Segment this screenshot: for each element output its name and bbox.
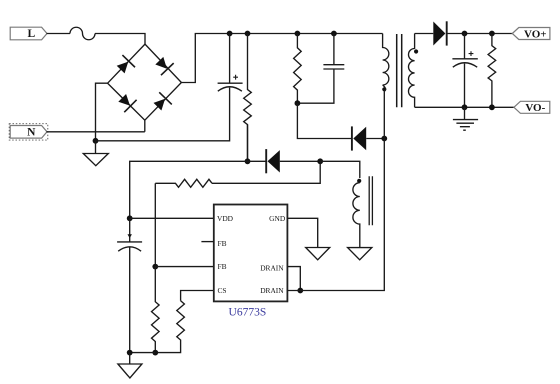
resistor R6 current sense bbox=[155, 301, 184, 353]
wire bridge right corner to HV rail bbox=[181, 34, 382, 83]
wire DRAIN2 pin to drain line bbox=[287, 139, 384, 291]
node VDD bbox=[127, 215, 133, 221]
bridge diode D2 top-right bbox=[153, 55, 174, 75]
wire GND pin to ground bbox=[287, 218, 317, 247]
wire negative return to bulk cap bbox=[96, 92, 230, 141]
node snubber junction bbox=[295, 100, 301, 106]
wire startup node to VDD diode bbox=[247, 125, 249, 162]
wire FB node to IC bbox=[155, 266, 214, 268]
capacitor C2 snubber bbox=[297, 34, 344, 104]
earth ground G5 bbox=[453, 107, 478, 130]
pin FB stub bbox=[201, 241, 213, 243]
wire secondary top to output diode bbox=[415, 33, 434, 35]
svg-text:DRAIN: DRAIN bbox=[260, 263, 284, 272]
resistor R2 snubber bbox=[294, 34, 302, 104]
node ground rail at C4 bbox=[127, 350, 133, 356]
fuse F1 bbox=[70, 27, 95, 39]
transformer T1 aux winding bbox=[353, 179, 361, 248]
svg-text:U6773S: U6773S bbox=[229, 307, 267, 319]
terminal VO+ bbox=[512, 28, 550, 41]
node DRAIN junction bbox=[297, 288, 303, 294]
svg-text:VO-: VO- bbox=[525, 102, 545, 114]
terminal N bbox=[9, 124, 48, 140]
resistor R4 feedback upper bbox=[155, 179, 212, 187]
svg-text:FB: FB bbox=[218, 239, 227, 248]
ground G4 bbox=[118, 353, 142, 378]
output bottom rail wire bbox=[415, 106, 514, 108]
resistor R5 feedback lower bbox=[152, 267, 160, 353]
bridge diamond wiring bbox=[108, 44, 182, 120]
wire VDD node to left rail bbox=[130, 161, 248, 218]
node output at R3 bbox=[489, 31, 495, 37]
wire L to fuse bbox=[47, 33, 71, 35]
ground G1 bbox=[83, 141, 108, 166]
transformer aux core bbox=[369, 176, 372, 225]
terminal VO- bbox=[514, 101, 550, 114]
node FB bbox=[152, 264, 158, 270]
svg-text:GND: GND bbox=[269, 214, 286, 223]
transformer T1 core bbox=[397, 34, 402, 107]
svg-text:N: N bbox=[27, 127, 36, 139]
svg-text:CS: CS bbox=[218, 286, 227, 295]
svg-text:VO+: VO+ bbox=[524, 28, 547, 40]
svg-text:FB: FB bbox=[218, 262, 227, 271]
node bottom rail at R3 bbox=[489, 104, 495, 110]
node bottom rail at C3 bbox=[462, 104, 468, 110]
wire N to bridge bottom bbox=[47, 120, 145, 132]
bridge diode D3 bottom-left bbox=[116, 92, 137, 113]
wire CS pin to sense resistor bbox=[181, 291, 214, 301]
node startup diode junction bbox=[245, 158, 251, 164]
wire VDD node to IC bbox=[130, 217, 214, 219]
wire aux node to aux winding bbox=[320, 161, 360, 178]
node HV rail at R2 bbox=[295, 31, 301, 37]
node bridge negative bbox=[93, 138, 99, 144]
svg-text:DRAIN: DRAIN bbox=[260, 286, 284, 295]
node drain primary junction bbox=[381, 136, 387, 142]
IC U1 U6773S bbox=[214, 205, 288, 319]
ground G3 bbox=[348, 248, 372, 260]
capacitor C3 output electrolytic bbox=[452, 34, 477, 108]
node HV rail at C1 bbox=[227, 31, 233, 37]
svg-text:L: L bbox=[27, 28, 35, 40]
svg-text:VDD: VDD bbox=[217, 214, 234, 223]
node HV rail at C2 bbox=[331, 31, 337, 37]
transformer T1 primary winding bbox=[382, 34, 389, 139]
node HV rail at R1 bbox=[245, 31, 251, 37]
capacitor C1 bulk electrolytic bbox=[218, 34, 243, 93]
wire DRAIN1 pin bbox=[287, 267, 300, 291]
terminal L bbox=[10, 27, 47, 40]
bridge diode D4 bottom-right bbox=[151, 92, 172, 113]
wire snubber to clamp diode bbox=[297, 103, 351, 138]
node output at C3 bbox=[462, 31, 468, 37]
node aux winding junction bbox=[317, 158, 323, 164]
wire aux node to feedback resistor bbox=[212, 161, 320, 183]
resistor R3 output load bbox=[488, 34, 496, 108]
bridge diode D1 top-left bbox=[114, 55, 135, 76]
wire bridge left corner to ground node bbox=[96, 83, 108, 141]
wire ground rail bbox=[130, 352, 156, 354]
diode D7 VDD rectifier bbox=[248, 149, 321, 173]
node ground rail at R5 bbox=[152, 350, 158, 356]
capacitor C4 VDD electrolytic bbox=[117, 218, 142, 352]
diode D5 clamp bbox=[352, 126, 384, 150]
wire fuse to bridge top bbox=[95, 34, 145, 45]
diode D6 output rectifier bbox=[433, 21, 512, 45]
transformer T1 secondary winding bbox=[409, 34, 419, 108]
ground G2 bbox=[306, 248, 330, 260]
resistor R1 startup bbox=[244, 34, 252, 162]
wire feedback to FB node bbox=[154, 183, 156, 266]
